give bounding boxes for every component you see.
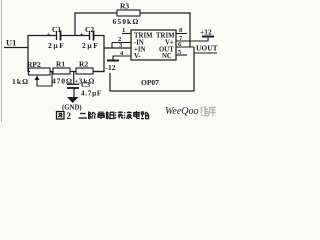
wire right riser node [93,35,105,72]
svg-text:UOUT: UOUT [196,44,218,53]
阶 [89,112,96,120]
svg-text:-IN: -IN [134,40,144,47]
svg-text:R3: R3 [120,2,129,11]
wire feedback riser left [74,13,76,36]
capacitor C2 [80,25,99,50]
svg-text:TRIM: TRIM [156,33,175,40]
svg-text:C3: C3 [81,80,90,89]
power -12 [106,61,120,73]
ground [62,97,82,112]
svg-text:(GND): (GND) [62,105,82,112]
wire pin 4 to V- [113,56,131,60]
wire pin 2 stub [112,43,131,49]
svg-text:R1: R1 [56,60,65,69]
wire C3 to ground [73,88,75,98]
svg-text:2μF: 2μF [82,41,99,50]
wire capacitor branch [28,35,105,37]
wire input riser [27,36,29,73]
pin number 3 [119,42,123,49]
svg-text:C2: C2 [85,25,94,34]
svg-text:2μF: 2μF [48,41,65,50]
wire pin 8 stub [176,33,187,35]
svg-text:U1: U1 [6,38,16,48]
svg-text:1: 1 [122,27,125,34]
pin number 4 [120,50,124,57]
node U1 input label [6,38,16,48]
resistor R1 [52,60,73,86]
wire to pin 3 [104,47,131,49]
pin number 6 [178,41,182,48]
svg-text:1kΩ: 1kΩ [12,77,29,86]
svg-text:NC: NC [162,53,172,60]
capacitor C1 [47,25,65,50]
svg-text:WeeQoo: WeeQoo [165,106,199,117]
capacitor C3 [67,78,102,98]
pin number 8 [179,27,183,34]
svg-text:+: + [47,32,51,38]
wire feedback riser right [189,12,191,47]
svg-text:V+: V+ [165,40,174,47]
power +12 [200,28,214,37]
potentiometer RP2 [12,60,52,86]
pin number 7 [179,35,183,42]
wire resistor branch [28,71,105,73]
resistor R3 [113,2,141,27]
wire pin 5 stub [176,54,187,56]
带 [97,111,105,119]
wire pin 6 output [176,46,194,48]
pin number 5 [178,49,182,56]
波 [124,111,132,119]
wire C3 junction riser [73,72,75,85]
wire U1 input stub [4,47,28,49]
wire bottom rail [110,47,194,91]
watermark [165,106,216,117]
svg-text:-12: -12 [106,63,116,72]
wire pin 1 stub [122,33,131,35]
wire pin 7 to V+ [176,37,208,41]
svg-text:+: + [80,32,84,38]
svg-text:2: 2 [67,111,72,121]
svg-text:C1: C1 [52,25,61,34]
二 [79,114,88,119]
pin number 2 [118,36,121,43]
库 [209,107,217,116]
svg-text:650kΩ: 650kΩ [113,17,140,26]
路 [141,112,149,119]
维 [201,106,209,116]
port UOUT [194,44,218,54]
svg-text:R2: R2 [79,60,88,69]
resistor R2 [76,60,95,86]
op-amp U2 OP07 body [131,30,176,87]
svg-text:RP2: RP2 [27,60,41,69]
svg-text:+12: +12 [200,28,212,37]
滤 [115,111,123,118]
电 [134,111,140,118]
阻 [107,112,115,120]
svg-text:V-: V- [134,53,141,60]
pin number 1 [122,27,125,34]
svg-text:OP07: OP07 [141,78,159,87]
caption figure 2 band-stop filter [57,111,149,121]
svg-text:4.7μF: 4.7μF [81,90,102,98]
svg-text:+: + [75,78,79,85]
svg-text:TRIM: TRIM [134,33,153,40]
wire feedback top [74,12,190,14]
图 [57,112,65,120]
